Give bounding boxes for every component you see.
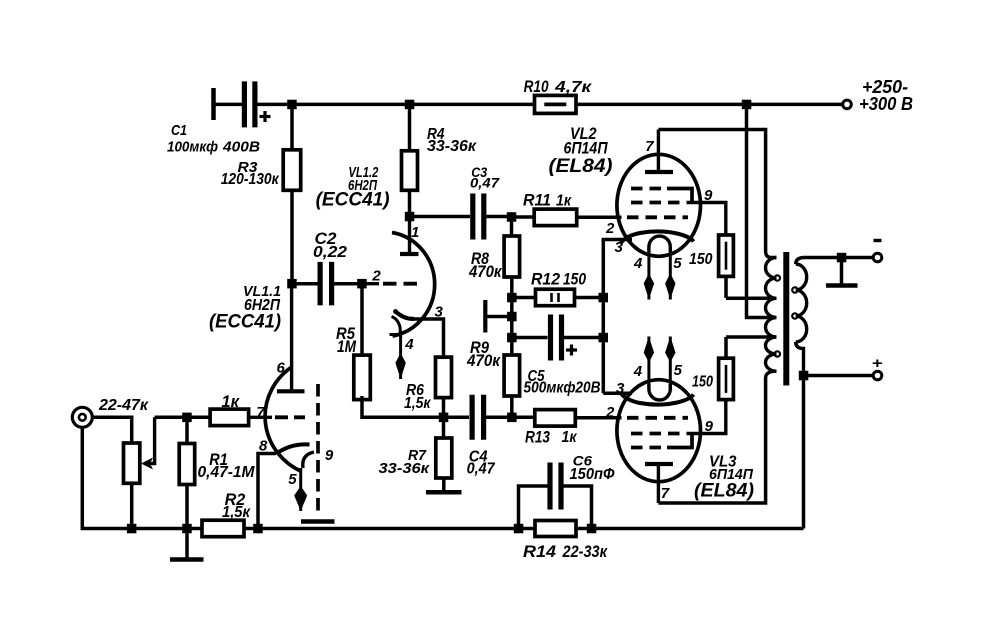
VL3 grid3 row xyxy=(631,446,667,450)
svg-text:150пФ: 150пФ xyxy=(570,466,615,483)
junction xyxy=(182,524,192,534)
junction xyxy=(507,312,516,322)
capacitor C6 xyxy=(550,463,561,510)
junction xyxy=(127,524,136,534)
VL1.2 cathode pin 3 xyxy=(395,311,414,319)
wire C6 right xyxy=(562,486,592,529)
svg-text:(EL84): (EL84) xyxy=(549,156,613,177)
svg-text:9: 9 xyxy=(325,447,334,464)
svg-text:8: 8 xyxy=(259,438,268,455)
resistor R 1к xyxy=(210,409,249,426)
VL1.1 heater xyxy=(303,452,314,468)
wire R7 top xyxy=(442,417,446,438)
junction xyxy=(287,279,297,289)
svg-text:+: + xyxy=(872,355,883,372)
wire input to pot xyxy=(92,417,131,443)
VL2 heater pin 5 arrow xyxy=(665,247,675,300)
wire R4 top xyxy=(408,104,412,151)
resistor R9 xyxy=(504,355,519,396)
wire R5 bottom rail xyxy=(362,396,444,417)
wire C1 left lead xyxy=(214,103,243,107)
wire top rail right xyxy=(577,103,844,107)
wire C5 left xyxy=(512,336,548,340)
resistor R12 xyxy=(536,289,575,306)
svg-text:3: 3 xyxy=(615,239,624,256)
resistor R14 xyxy=(535,521,576,537)
VL3 grid2 dashes xyxy=(631,432,687,436)
VL3 cathode pin 3 xyxy=(621,393,694,405)
label minus xyxy=(874,239,882,242)
svg-text:4: 4 xyxy=(633,363,643,380)
svg-text:R11: R11 xyxy=(523,191,551,210)
VL1.2 grid pin 2 xyxy=(362,282,379,285)
wire VL3 cathode out xyxy=(603,392,632,396)
junction xyxy=(253,524,263,534)
potentiometer 22-47к xyxy=(124,443,140,483)
VL1.1 grid pin 7 xyxy=(249,416,273,419)
capacitor C3 xyxy=(473,194,484,240)
svg-text:7: 7 xyxy=(256,404,265,421)
primary curls xyxy=(775,275,780,280)
junction xyxy=(405,100,415,110)
svg-text:R10: R10 xyxy=(524,77,549,96)
wire UL tap bottom xyxy=(726,335,776,339)
svg-text:(ECC41): (ECC41) xyxy=(316,190,390,211)
ground shield xyxy=(301,519,335,524)
resistor 150 (VL2 screen) xyxy=(719,235,734,276)
wire VL2 anode to primary xyxy=(658,130,765,252)
junction xyxy=(357,279,367,289)
wire VL3 pin9 to 150 xyxy=(687,400,726,434)
resistor 150 (VL3 screen) xyxy=(719,358,734,399)
resistor R6 xyxy=(436,357,452,398)
wire R1 top xyxy=(185,417,189,443)
ground R7 xyxy=(426,490,462,495)
svg-text:120-130к: 120-130к xyxy=(221,171,280,188)
junction xyxy=(287,100,297,110)
wire R12 right xyxy=(575,296,604,300)
terminal minus xyxy=(873,253,882,262)
svg-text:470к: 470к xyxy=(466,352,501,370)
svg-text:22-33к: 22-33к xyxy=(562,543,609,561)
wire ground stub xyxy=(185,529,189,558)
wire 150 to tap xyxy=(724,276,728,298)
svg-text:R14: R14 xyxy=(523,543,556,561)
wire VL3 anode to primary xyxy=(658,378,765,504)
svg-text:(ECC41): (ECC41) xyxy=(209,312,281,333)
capacitor C1 terminal bar xyxy=(211,88,216,120)
wire VL2 pin9 to 150 xyxy=(687,203,726,236)
svg-text:1М: 1М xyxy=(337,338,357,356)
svg-text:3: 3 xyxy=(435,304,444,321)
svg-text:150: 150 xyxy=(692,374,713,391)
wire C2 right lead xyxy=(332,282,358,286)
capacitor C4 xyxy=(472,395,484,440)
wire top rail left xyxy=(258,103,535,107)
junction xyxy=(799,371,809,381)
wire chassis stub xyxy=(840,258,844,284)
svg-text:2: 2 xyxy=(371,268,381,285)
wire center tap xyxy=(747,104,776,317)
wire VL1.2 cathode to R6 xyxy=(413,319,444,357)
wire R3 top xyxy=(290,104,294,150)
junction xyxy=(405,212,415,222)
svg-text:500мкф20В: 500мкф20В xyxy=(524,380,601,397)
svg-text:0,47: 0,47 xyxy=(467,461,496,478)
wire wiper to R1 xyxy=(155,416,187,420)
tube VL1.1 envelope xyxy=(265,367,301,472)
wire R11 to VL2 grid xyxy=(577,216,622,220)
wire cathode column xyxy=(602,242,606,393)
wire R9 bottom xyxy=(510,396,514,417)
VL3 heater pin 4 arrow xyxy=(644,337,654,390)
VL1.1 cathode pin 8 xyxy=(276,444,310,453)
junction xyxy=(587,524,597,534)
transformer secondary winding xyxy=(796,258,804,265)
VL3 anode pin 7 xyxy=(645,464,673,503)
VL1.2 heater xyxy=(392,317,401,335)
svg-text:100мкф: 100мкф xyxy=(167,139,218,156)
junction xyxy=(507,333,516,343)
ground input xyxy=(170,557,204,562)
svg-text:7: 7 xyxy=(645,138,654,155)
wire R3 to VL1.1 anode xyxy=(290,190,294,283)
capacitor C1 xyxy=(244,81,270,127)
wire C1 right lead xyxy=(255,103,258,107)
VL3 grid1 dashes xyxy=(627,416,688,420)
wire 1к left lead xyxy=(191,416,210,420)
input connector xyxy=(72,407,92,427)
junction xyxy=(507,212,517,222)
svg-text:150: 150 xyxy=(689,251,713,268)
resistor R8 xyxy=(504,236,519,277)
svg-text:9: 9 xyxy=(704,187,713,204)
svg-text:9: 9 xyxy=(705,418,714,435)
wire UL tap top xyxy=(726,297,776,301)
svg-text:5: 5 xyxy=(288,471,297,488)
wire pot bottom xyxy=(130,483,134,528)
svg-text:6: 6 xyxy=(277,360,286,377)
svg-text:4: 4 xyxy=(633,255,643,272)
svg-text:470к: 470к xyxy=(468,263,503,281)
svg-text:0,22: 0,22 xyxy=(313,244,347,261)
chassis ground bar (cathode network) xyxy=(485,300,512,333)
wire bottom rail right xyxy=(576,527,804,531)
VL2 grid2 dashes xyxy=(631,201,687,205)
svg-text:33-36к: 33-36к xyxy=(379,460,431,477)
terminal +250-+300V xyxy=(843,100,852,109)
svg-text:1к: 1к xyxy=(556,193,572,210)
junction xyxy=(507,293,516,303)
wire to R11 xyxy=(512,215,535,219)
wire to C3 xyxy=(410,215,471,219)
resistor R7 xyxy=(436,438,452,478)
VL1.1 anode plate pin 6 xyxy=(277,284,305,392)
svg-text:0,47-1М: 0,47-1М xyxy=(198,464,256,481)
junction xyxy=(742,100,752,110)
resistor R11 xyxy=(534,209,577,226)
resistor R3 xyxy=(283,150,301,191)
junction xyxy=(599,293,609,303)
resistor R1 xyxy=(179,444,195,485)
VL1.2 heater pin 4 arrow xyxy=(395,335,405,380)
resistor R2 xyxy=(202,520,244,537)
wire to C4 xyxy=(444,416,470,420)
wire R1 bottom xyxy=(185,485,189,529)
VL3 heater loop xyxy=(649,384,670,400)
junction xyxy=(514,524,524,534)
wire R12 left xyxy=(512,296,536,300)
VL2 grid3 row xyxy=(631,187,667,191)
wire secondary top xyxy=(804,256,874,260)
wire C3 to junction xyxy=(484,215,512,219)
svg-text:(EL84): (EL84) xyxy=(694,481,754,502)
wire plus to bottom rail xyxy=(802,376,806,529)
svg-text:6П14П: 6П14П xyxy=(564,140,609,158)
resistor R10 xyxy=(535,95,577,113)
svg-text:3: 3 xyxy=(616,380,625,397)
svg-text:2: 2 xyxy=(605,404,615,421)
svg-text:33-36к: 33-36к xyxy=(427,138,477,155)
wire C2 left lead xyxy=(292,282,318,286)
svg-text:7: 7 xyxy=(661,485,670,502)
terminal plus xyxy=(873,371,882,380)
svg-text:1к: 1к xyxy=(562,429,578,446)
svg-text:+300 В: +300 В xyxy=(859,94,913,114)
junction xyxy=(439,413,449,423)
wire bottom rail left xyxy=(82,427,202,528)
svg-text:2: 2 xyxy=(605,220,615,237)
VL2 cathode pin 3 xyxy=(621,231,694,243)
svg-text:4: 4 xyxy=(404,336,414,353)
svg-text:1: 1 xyxy=(411,224,419,241)
svg-text:0,47: 0,47 xyxy=(470,175,500,191)
svg-text:R13: R13 xyxy=(525,428,550,447)
svg-text:150: 150 xyxy=(563,270,586,289)
VL2 heater loop xyxy=(649,236,670,252)
junction xyxy=(599,333,609,343)
resistor R4 xyxy=(402,151,418,191)
wire R8 top xyxy=(510,217,514,236)
wire R6 bottom xyxy=(442,398,446,418)
VL2 heater pin 4 arrow xyxy=(644,247,654,300)
capacitor C5 xyxy=(551,315,578,361)
tube VL2 envelope xyxy=(617,154,701,256)
VL2 anode pin 7 xyxy=(645,130,673,173)
svg-text:400В: 400В xyxy=(222,139,260,156)
potentiometer wiper arrow xyxy=(141,417,155,469)
wire R13 to VL3 grid xyxy=(575,416,622,420)
wire R5 top xyxy=(360,284,364,355)
svg-text:R12: R12 xyxy=(531,270,561,289)
wire secondary bottom xyxy=(804,374,874,378)
wire tap to 150 xyxy=(724,337,728,358)
VL3 heater pin 5 arrow xyxy=(665,337,675,390)
svg-text:5: 5 xyxy=(673,255,682,272)
VL1.1 shield pin 9 (dashed) xyxy=(316,384,320,517)
wire R8-R9 column xyxy=(510,277,514,355)
tube VL1.2 envelope xyxy=(392,233,435,337)
svg-text:4,7к: 4,7к xyxy=(554,79,592,96)
VL1.1 heater pin 5 arrow xyxy=(294,468,307,511)
junction xyxy=(507,413,516,423)
wire R7 bottom xyxy=(442,478,446,490)
wire VL1.1 cathode to R2 xyxy=(258,454,276,529)
wire to R13 xyxy=(512,416,535,420)
transformer core xyxy=(783,252,789,386)
svg-text:22-47к: 22-47к xyxy=(98,397,149,414)
wire R4 bottom xyxy=(408,190,412,216)
transformer primary winding xyxy=(766,251,777,258)
wire VL2 cathode out xyxy=(603,240,632,243)
wire bottom rail mid xyxy=(244,527,535,531)
wire C5 right xyxy=(562,336,603,340)
tube VL3 envelope xyxy=(617,380,701,482)
resistor R13 xyxy=(535,410,576,427)
junction xyxy=(182,413,192,423)
ground output xyxy=(826,283,858,288)
VL1.2 anode plate pin 1 xyxy=(400,217,419,255)
svg-text:5: 5 xyxy=(674,362,683,379)
wire C4 right xyxy=(484,416,512,420)
VL2 grid1 dashes xyxy=(627,215,688,219)
capacitor C2 xyxy=(320,262,332,306)
svg-text:1,5к: 1,5к xyxy=(404,395,432,412)
junction xyxy=(837,253,847,262)
svg-text:C1: C1 xyxy=(171,122,187,139)
resistor R5 xyxy=(354,355,371,400)
wire C6 left xyxy=(519,486,548,529)
svg-text:1к: 1к xyxy=(221,393,240,411)
